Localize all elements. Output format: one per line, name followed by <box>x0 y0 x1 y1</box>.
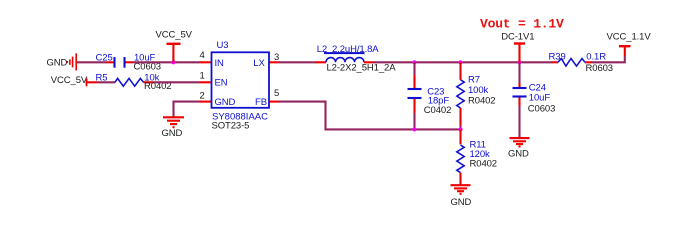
label C24 <box>529 82 546 93</box>
svg-text:R0402: R0402 <box>470 159 498 170</box>
label R11 <box>470 140 486 151</box>
resistor R5 pin left <box>87 81 98 83</box>
pin number 4 <box>200 50 205 61</box>
svg-text:5: 5 <box>274 88 279 99</box>
footprint SOT23-5 <box>212 121 250 132</box>
power port DC-1V1 <box>501 32 534 63</box>
svg-text:C0603: C0603 <box>528 103 556 114</box>
power port VCC_1.1V <box>607 31 652 56</box>
value 2.2uH/1.8A <box>332 44 379 55</box>
ground (left, rotated) <box>67 53 76 70</box>
label L2 <box>317 44 327 55</box>
capacitor C24 <box>513 83 527 106</box>
resistor R39 <box>558 59 592 67</box>
value 120k <box>470 149 491 160</box>
svg-text:0.1R: 0.1R <box>586 51 606 62</box>
svg-text:IN: IN <box>215 58 225 69</box>
svg-text:GND: GND <box>451 197 472 208</box>
svg-text:4: 4 <box>200 50 205 61</box>
wire C23 upper <box>413 62 415 75</box>
capacitor C23 <box>408 75 422 113</box>
svg-text:3: 3 <box>274 52 279 63</box>
inductor L2 <box>316 58 374 63</box>
svg-text:C0402: C0402 <box>424 105 452 116</box>
capacitor C25 <box>107 57 133 68</box>
svg-text:SOT23-5: SOT23-5 <box>212 121 250 132</box>
svg-text:VCC_5V: VCC_5V <box>156 30 193 41</box>
wire pin2 to ground <box>174 102 200 117</box>
op IC U3 pin stubs <box>200 62 279 101</box>
net label GND (under R11) <box>451 197 472 208</box>
wire <box>97 81 115 83</box>
wire C24 upper <box>518 62 520 83</box>
wire FB path <box>279 102 461 130</box>
value 10uF <box>529 93 551 104</box>
svg-text:1: 1 <box>200 71 205 82</box>
wire main rail <box>374 61 551 63</box>
pin number 1 <box>200 71 205 82</box>
net label GND (under C24) <box>508 148 529 159</box>
svg-text:R7: R7 <box>468 75 480 86</box>
ground (under U3) <box>163 117 184 127</box>
pin name EN <box>215 77 228 88</box>
svg-text:FB: FB <box>255 97 267 108</box>
part SY8088IAAC <box>212 111 268 122</box>
wire <box>77 61 107 63</box>
svg-text:10uF: 10uF <box>529 93 551 104</box>
resistor R7 <box>457 62 464 129</box>
net label VCC_5V (EN row) <box>51 75 88 86</box>
svg-text:DC-1V1: DC-1V1 <box>501 32 534 43</box>
pin stub tick <box>86 78 88 86</box>
junction R7 top <box>458 60 462 64</box>
svg-text:2.2uH/1.8A: 2.2uH/1.8A <box>332 44 379 55</box>
footprint R0402 <box>468 95 496 106</box>
value 100k <box>468 85 489 96</box>
wire LX <box>279 61 317 63</box>
net label GND (under U3) <box>162 128 183 139</box>
label U3 <box>217 40 229 51</box>
pin name IN <box>215 58 225 69</box>
svg-text:LX: LX <box>253 58 265 69</box>
svg-text:R0402: R0402 <box>468 95 496 106</box>
net label GND (left) <box>47 57 68 68</box>
value 10uF <box>134 53 156 64</box>
junction <box>171 60 175 64</box>
svg-text:R5: R5 <box>96 73 108 84</box>
wire C23 lower <box>413 113 415 129</box>
svg-text:Vout = 1.1V: Vout = 1.1V <box>480 16 564 31</box>
svg-text:GND: GND <box>215 97 236 108</box>
svg-text:VCC_1.1V: VCC_1.1V <box>607 31 652 42</box>
label R5 <box>96 73 108 84</box>
svg-text:U3: U3 <box>217 40 229 51</box>
pin number 2 <box>200 91 205 102</box>
svg-text:100k: 100k <box>468 85 489 96</box>
junction C23 bottom <box>412 127 416 131</box>
svg-text:R39: R39 <box>549 51 566 62</box>
svg-text:VCC_5V: VCC_5V <box>51 75 88 86</box>
junction C23 top <box>412 60 416 64</box>
wire <box>133 61 200 63</box>
junction DC-1V1 <box>517 60 521 64</box>
pin number 5 <box>274 88 279 99</box>
underline <box>324 52 365 54</box>
value 10k <box>144 73 159 84</box>
footprint R0603 <box>586 63 614 74</box>
svg-text:GND: GND <box>508 148 529 159</box>
label C25 <box>96 53 113 64</box>
footprint L2-2X2_5H1_2A <box>327 63 397 74</box>
label R39 <box>549 51 566 62</box>
label C23 <box>427 86 444 97</box>
value 18pF <box>428 96 450 107</box>
footprint R0402 <box>470 159 498 170</box>
footprint C0402 <box>424 105 452 116</box>
label R7 <box>468 75 480 86</box>
junction R7/R11 <box>458 127 462 131</box>
resistor R5 <box>115 78 154 86</box>
svg-text:EN: EN <box>215 77 228 88</box>
power port VCC_5V (top) <box>156 30 193 63</box>
pin name LX <box>253 58 265 69</box>
footprint C0603 <box>528 103 556 114</box>
svg-text:R0603: R0603 <box>586 63 614 74</box>
pin name FB <box>255 97 267 108</box>
footprint C0603 <box>134 62 162 73</box>
ground (under R11) <box>451 185 471 194</box>
footprint R0402 <box>144 81 172 92</box>
svg-text:2: 2 <box>200 91 205 102</box>
IC U3 body <box>212 52 270 108</box>
pin number 3 <box>274 52 279 63</box>
wire C24 lower <box>518 106 520 138</box>
wire <box>154 81 200 83</box>
svg-text:L2-2X2_5H1_2A: L2-2X2_5H1_2A <box>327 63 397 74</box>
svg-text:GND: GND <box>47 57 68 68</box>
value 0.1R <box>586 51 606 62</box>
pin name GND <box>215 97 236 108</box>
label Vout <box>480 16 564 31</box>
wire rail to R39 <box>551 61 558 63</box>
ground (under C24) <box>510 138 530 146</box>
resistor R11 <box>457 129 464 185</box>
wire to VCC_1.1V <box>592 56 625 62</box>
svg-text:GND: GND <box>162 128 183 139</box>
svg-text:C25: C25 <box>96 53 113 64</box>
